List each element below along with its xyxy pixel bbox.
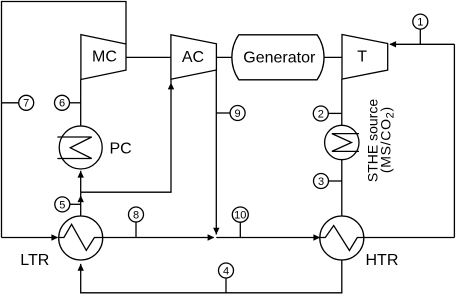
node 7 (19, 95, 34, 110)
wire: MC outlet to AC (126, 56, 171, 58)
node 3 (314, 174, 342, 189)
wire: HTR hot outlet bottom loop to LTR hot inlet (81, 260, 342, 293)
wire: node 1 line into turbine inlet (390, 43, 454, 45)
node 8 (129, 207, 144, 238)
cooler PC (57, 126, 131, 169)
compressor AC (171, 35, 217, 79)
svg-text:9: 9 (235, 108, 241, 120)
wire: right-side vertical from HTR outlet up to turbine line (453, 44, 455, 237)
wire: left line into LTR cold inlet (2, 237, 58, 239)
svg-text:5: 5 (59, 199, 65, 211)
heater STHE source (325, 125, 359, 159)
node 1 (413, 14, 428, 44)
wire: LTR cold outlet up to branch junction (80, 192, 82, 216)
wire: HTR cold outlet to right vertical (364, 237, 455, 239)
generator (232, 35, 324, 80)
svg-text:2: 2 (318, 108, 324, 120)
wire: AC outlet down to mixing junction (215, 70, 217, 235)
wire: branch junction right and up to AC inlet (81, 80, 171, 193)
svg-text:10: 10 (234, 209, 246, 221)
svg-text:3: 3 (318, 176, 324, 188)
node 2 (313, 106, 342, 121)
node 5 (55, 197, 81, 212)
svg-text:AC: AC (182, 49, 204, 66)
wire: node 7 stub (2, 102, 19, 104)
wire: STHE outlet down to HTR (341, 160, 343, 216)
node 6 (55, 95, 81, 110)
svg-text:Generator: Generator (243, 50, 316, 67)
node 10 (232, 207, 248, 238)
svg-text:8: 8 (133, 209, 139, 221)
wire: LTR cold side out to junction with AC downcomer (103, 237, 214, 239)
svg-text:HTR: HTR (366, 252, 399, 269)
wire: PC outlet up to MC suction (80, 80, 82, 127)
wire: AC outlet to generator (216, 56, 233, 58)
svg-text:6: 6 (59, 98, 65, 110)
label STHE source (MS/CO2) rotated (365, 99, 397, 182)
wire: branch junction up to PC (80, 171, 82, 192)
wire: LTR cold outlet loop up-over to MC inlet (2, 2, 127, 238)
node 4 (219, 263, 234, 293)
compressor MC (81, 35, 126, 80)
node 9 (216, 106, 245, 121)
svg-text:T: T (357, 49, 367, 66)
recuperator HTR (320, 216, 399, 269)
wire: turbine exhaust down to STHE (341, 79, 343, 125)
wire: generator shaft to turbine (324, 56, 342, 58)
svg-text:1: 1 (417, 17, 423, 29)
svg-text:MC: MC (92, 49, 117, 66)
turbine T (342, 35, 388, 80)
wire: mixing junction to HTR cold inlet (216, 237, 319, 239)
svg-text:7: 7 (23, 98, 29, 110)
svg-text:PC: PC (110, 140, 132, 157)
svg-text:4: 4 (223, 265, 229, 277)
svg-text:LTR: LTR (20, 252, 49, 269)
recuperator LTR (20, 216, 102, 269)
